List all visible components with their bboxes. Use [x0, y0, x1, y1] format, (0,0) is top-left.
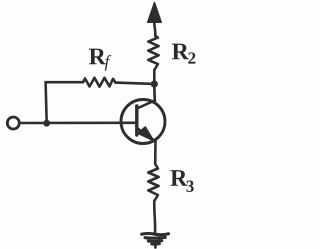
supply arrow — [148, 3, 162, 23]
node C junction dot — [151, 80, 158, 87]
wire emitter to R3 — [154, 142, 157, 165]
wire R2 to node C — [153, 70, 156, 82]
input terminal — [7, 117, 19, 129]
label R2 — [172, 44, 189, 60]
wire input to base — [20, 122, 136, 125]
wire Rf to node C — [116, 83, 152, 84]
wire supply to R2 — [154, 22, 155, 37]
resistor Rf — [83, 78, 116, 87]
resistor R2 — [148, 36, 158, 70]
ground — [142, 234, 169, 248]
label R3 — [170, 170, 187, 186]
label Rf — [89, 49, 106, 65]
wire feedback vertical — [46, 82, 47, 123]
wire node C to collector — [153, 86, 156, 101]
resistor R3 — [148, 164, 158, 201]
wire Rf left segment — [46, 81, 83, 84]
wire R3 to ground — [153, 201, 156, 233]
node B junction dot — [43, 120, 50, 127]
transistor Q1 — [121, 100, 165, 144]
